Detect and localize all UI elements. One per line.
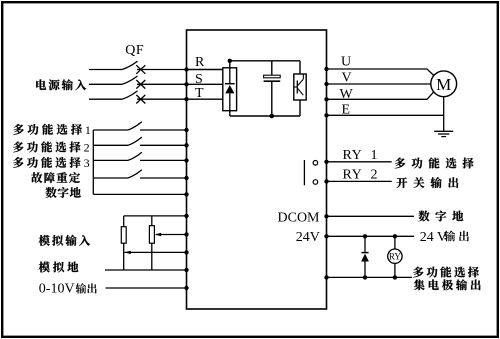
wire T to rectifier bbox=[187, 98, 223, 100]
label 多功能选择 right bbox=[395, 158, 474, 169]
svg-text:R: R bbox=[195, 55, 205, 70]
label 多功能选择3 a bbox=[13, 157, 81, 168]
svg-text:3: 3 bbox=[84, 156, 90, 170]
terminal multi-input 3 bbox=[184, 158, 188, 162]
label 故障重定 bbox=[31, 172, 80, 183]
terminal multi-input 2 bbox=[184, 143, 188, 147]
svg-text:RY: RY bbox=[389, 251, 402, 261]
terminal analog input 2 bbox=[184, 250, 188, 254]
wire RP1 bottom lead bbox=[151, 243, 153, 270]
junction DC+ node bbox=[228, 59, 232, 63]
label 模拟输入 bbox=[39, 235, 90, 246]
wire RP1 top lead bbox=[151, 216, 153, 226]
IGBT module Q1 bbox=[294, 74, 306, 100]
label 多功能选择1 a bbox=[13, 124, 82, 135]
wire cap top lead bbox=[271, 61, 273, 76]
wire E to ground bbox=[327, 114, 444, 116]
motor M1 bbox=[431, 71, 457, 97]
svg-text:2: 2 bbox=[84, 140, 90, 154]
inverter main box U1 bbox=[187, 30, 327, 309]
wire cap bottom lead bbox=[271, 81, 273, 116]
relay coil RY bbox=[388, 236, 402, 277]
terminal analog supply bbox=[184, 214, 188, 218]
terminal 24V bbox=[324, 234, 328, 238]
switch S1 with wires bbox=[93, 122, 186, 130]
wire open collector output bbox=[327, 276, 413, 278]
wire digital ground row bbox=[93, 193, 186, 195]
label 多功能选择2 a bbox=[13, 141, 81, 152]
svg-text:24 V: 24 V bbox=[420, 230, 447, 245]
terminal RY1 bbox=[324, 160, 328, 164]
terminal W bbox=[324, 97, 328, 101]
terminal multi-input 1 bbox=[184, 128, 188, 132]
relay contact RY1 bbox=[313, 161, 318, 166]
svg-text:2: 2 bbox=[371, 168, 378, 183]
wire 0-10V output bbox=[106, 287, 187, 289]
relay contact RY2 bbox=[313, 180, 318, 185]
terminal V bbox=[324, 82, 328, 86]
terminal U bbox=[324, 67, 328, 71]
svg-text:RY: RY bbox=[343, 168, 363, 183]
wire DC+ bus bbox=[230, 60, 300, 62]
terminal open collector bbox=[324, 275, 328, 279]
terminal DCOM bbox=[324, 214, 328, 218]
svg-text:QF: QF bbox=[125, 43, 144, 58]
wire W to motor bbox=[327, 92, 434, 99]
flyback diode D2 bbox=[361, 236, 369, 277]
wire analog input 2 with arrow bbox=[124, 251, 186, 254]
wire IGBT top lead bbox=[299, 61, 301, 74]
terminal digital ground bbox=[184, 192, 188, 196]
label 0-10V b 输出 bbox=[76, 283, 97, 293]
ground symbol bbox=[434, 131, 453, 136]
svg-text:1: 1 bbox=[85, 123, 91, 137]
wire U to motor bbox=[327, 69, 434, 75]
terminal analog input 1 bbox=[184, 232, 188, 236]
terminal multi-input 4 bbox=[184, 176, 188, 180]
wire analog ground bbox=[105, 269, 187, 271]
wire motor to ground bbox=[443, 97, 445, 132]
wire DC- bus bbox=[230, 115, 300, 117]
terminal RY2 bbox=[324, 179, 328, 183]
terminal E bbox=[324, 113, 328, 117]
terminal S bbox=[184, 82, 188, 86]
wire rectifier bottom lead bbox=[229, 111, 231, 116]
label 电源输入 bbox=[36, 79, 86, 90]
terminal T bbox=[184, 97, 188, 101]
terminal analog ground bbox=[184, 268, 188, 272]
wire rectifier top lead bbox=[229, 61, 231, 68]
resistor R1 bbox=[121, 227, 126, 244]
wire IGBT bottom lead bbox=[299, 100, 301, 116]
label 开关输出 bbox=[396, 177, 458, 188]
wire DCOM bbox=[327, 215, 415, 217]
relay actuator bar bbox=[303, 160, 305, 185]
breaker QF pole S with wire bbox=[89, 76, 187, 89]
wire R to rectifier bbox=[187, 69, 223, 71]
svg-text:24V: 24V bbox=[296, 230, 320, 245]
potentiometer RP1 bbox=[149, 226, 154, 244]
wire analog supply bbox=[124, 215, 187, 217]
terminal R bbox=[184, 67, 188, 71]
rectifier bridge D1 bbox=[223, 68, 237, 111]
junction coil bottom bbox=[393, 275, 397, 279]
breaker QF pole T with wire bbox=[89, 91, 187, 104]
svg-text:1: 1 bbox=[371, 148, 378, 163]
switch S3 with wires bbox=[93, 152, 186, 160]
wire RY2 output bbox=[327, 180, 392, 182]
wire R1 bottom lead bbox=[123, 243, 125, 270]
junction diode bottom bbox=[363, 275, 367, 279]
svg-text:0-10V: 0-10V bbox=[39, 281, 75, 296]
breaker QF pole R with wire bbox=[89, 61, 187, 74]
wire V to motor bbox=[327, 83, 432, 85]
svg-text:U: U bbox=[341, 54, 351, 69]
label 数字地 right bbox=[418, 211, 463, 222]
junction 24V coil node bbox=[393, 234, 397, 238]
wire RY1 output bbox=[327, 161, 392, 163]
label 24 V output b 输出 bbox=[444, 231, 469, 242]
label 多功能选择 bottom bbox=[413, 267, 479, 278]
svg-text:V: V bbox=[342, 70, 352, 85]
wire S to rectifier bbox=[187, 83, 223, 85]
label 集电极输出 bbox=[414, 279, 481, 290]
svg-text:RY: RY bbox=[343, 148, 363, 163]
svg-text:DCOM: DCOM bbox=[278, 211, 321, 226]
terminal 0-10V output bbox=[184, 286, 188, 290]
junction DC- node bbox=[270, 114, 275, 119]
svg-text:M: M bbox=[436, 75, 451, 94]
wire 24V bbox=[327, 235, 415, 237]
capacitor C1 bbox=[264, 75, 281, 81]
label 模拟地 bbox=[39, 262, 79, 273]
label 数字地 bbox=[46, 187, 81, 198]
wire RP1 wiper to terminal bbox=[155, 233, 187, 236]
switch S2 with wires bbox=[93, 137, 186, 145]
wire digital common bus bbox=[92, 130, 94, 194]
wire R1 top lead bbox=[123, 216, 125, 227]
switch S4 fault reset with wires bbox=[93, 170, 186, 178]
junction 24V diode node bbox=[363, 234, 367, 238]
